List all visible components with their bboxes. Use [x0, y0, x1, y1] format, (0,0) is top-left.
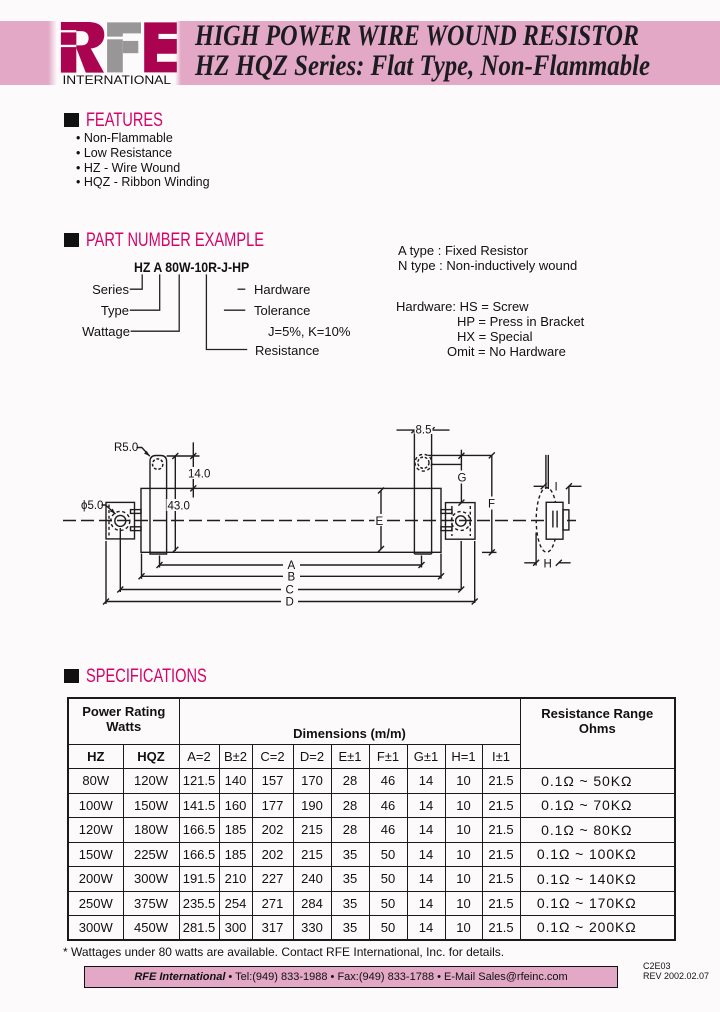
- side view screw lines: [553, 511, 557, 528]
- TECHNICAL DRAWING: [0, 0, 720, 660]
- dimension F line: [491, 455, 493, 552]
- part number connector lines: [0, 0, 720, 400]
- SPECIFICATIONS heading: [64, 669, 79, 683]
- FOOTER BAND: [84, 966, 618, 988]
- dimension H arrows: [524, 560, 539, 566]
- svg-text:43.0: 43.0: [168, 501, 190, 513]
- svg-text:G: G: [458, 473, 467, 485]
- dimension G line: [460, 450, 462, 503]
- right bracket: [446, 503, 476, 540]
- svg-text:F: F: [488, 499, 495, 511]
- svg-text:8.5: 8.5: [416, 425, 432, 437]
- dimension 14.0 line: [192, 442, 194, 497]
- SPECIFICATIONS TABLE: [67, 697, 676, 941]
- svg-text:E: E: [376, 516, 384, 528]
- dimension A extension lines: [159, 556, 161, 568]
- dimension D extension lines: [105, 541, 107, 604]
- LOGO: [0, 0, 200, 95]
- svg-text:B: B: [288, 572, 296, 584]
- dimension 8.5 arrows: [397, 427, 418, 433]
- label G: [456, 471, 469, 484]
- PART NUMBER EXAMPLE heading: [64, 233, 79, 247]
- left mounting tab: [150, 456, 167, 555]
- footnote: [63, 945, 504, 959]
- dimension D line: [106, 601, 475, 603]
- left bracket dashed edge: [108, 505, 110, 538]
- svg-text:D: D: [286, 597, 294, 609]
- phi5.0 leader: [102, 505, 116, 514]
- dimension C line: [120, 589, 461, 591]
- resistor body outline: [141, 488, 441, 552]
- dimension A line: [160, 564, 422, 566]
- part number text: [134, 260, 249, 274]
- right terminal lug upper: [441, 510, 452, 514]
- FEATURES heading: [64, 113, 79, 127]
- label F: [487, 497, 498, 510]
- press bracket arm top line: [428, 454, 492, 456]
- R5.0 leader: [137, 448, 150, 457]
- dimension E line: [380, 491, 382, 550]
- left terminal lug upper: [131, 510, 142, 514]
- svg-text:I: I: [555, 482, 558, 494]
- left bracket: [106, 502, 135, 539]
- right terminal lug lower: [441, 527, 452, 531]
- side view bracket plate: [546, 502, 563, 539]
- dimension B line: [142, 575, 442, 577]
- label 43.0: [167, 499, 190, 511]
- label 8.5: [415, 423, 433, 434]
- svg-text:ϕ5.0: ϕ5.0: [81, 500, 103, 512]
- right bracket hole dashed circle: [451, 512, 470, 531]
- left terminal lug lower: [131, 527, 142, 531]
- dimension H left extension: [535, 533, 537, 566]
- dimension I right extension: [568, 486, 570, 504]
- right bracket hole: [456, 516, 466, 526]
- centerline: [63, 520, 576, 522]
- HEADER BAND: [0, 21, 720, 85]
- dimension I arrows: [534, 483, 547, 489]
- TITLE: [195, 21, 639, 51]
- press bracket arm bottom line: [432, 463, 462, 465]
- dimension C extension lines: [119, 528, 121, 592]
- svg-text:H: H: [544, 559, 552, 571]
- side view dashed ellipse: [536, 488, 557, 553]
- label E: [375, 514, 387, 526]
- right tab outer dashed circle: [415, 454, 432, 471]
- left bracket hole: [115, 515, 126, 526]
- svg-text:A: A: [288, 560, 296, 572]
- dimension 43.0 line: [174, 456, 176, 551]
- right mounting tab: [414, 430, 431, 554]
- svg-text:C: C: [286, 585, 294, 597]
- left tab hole dashed circle: [153, 459, 163, 469]
- dimension 14.0 reference line: [167, 455, 200, 457]
- dimension F bottom extension: [482, 551, 497, 553]
- side view lead wire: [546, 455, 548, 489]
- svg-text:R5.0: R5.0: [114, 442, 138, 454]
- svg-text:14.0: 14.0: [188, 469, 210, 481]
- dimension B extension lines: [141, 554, 143, 579]
- left bracket hole dashed circle: [111, 511, 130, 530]
- right bracket dashed edges: [451, 506, 453, 536]
- label 14.0: [187, 467, 208, 479]
- right tab hole dashed circle: [418, 457, 429, 468]
- side view nut block: [563, 510, 569, 530]
